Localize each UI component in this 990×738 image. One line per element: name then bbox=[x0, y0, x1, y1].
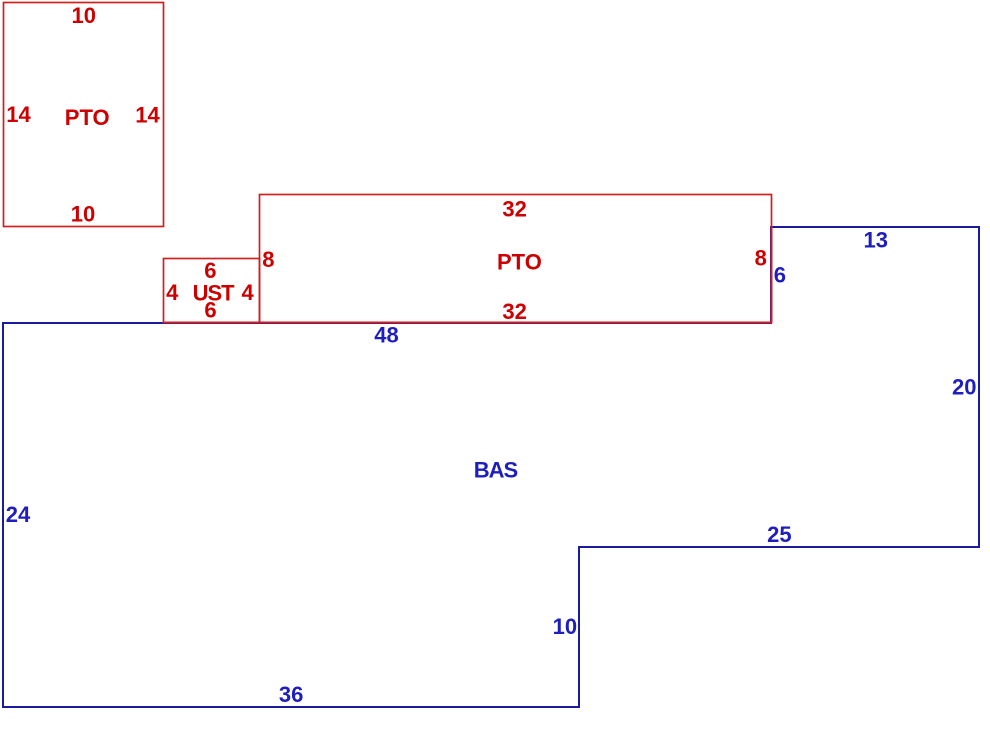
svg-text:10: 10 bbox=[71, 202, 95, 227]
svg-text:8: 8 bbox=[755, 245, 767, 270]
svg-text:PTO: PTO bbox=[65, 105, 110, 130]
svg-text:32: 32 bbox=[502, 197, 526, 222]
svg-text:32: 32 bbox=[502, 299, 526, 324]
svg-text:8: 8 bbox=[262, 247, 274, 272]
svg-text:BAS: BAS bbox=[474, 457, 518, 482]
svg-text:48: 48 bbox=[374, 323, 398, 348]
area PTO center (red rectangle) bbox=[260, 195, 772, 323]
svg-text:14: 14 bbox=[6, 102, 31, 127]
area UST (red rectangle) bbox=[164, 259, 260, 323]
svg-text:4: 4 bbox=[166, 280, 179, 305]
svg-text:20: 20 bbox=[952, 375, 976, 400]
area BAS outline (blue polygon) bbox=[3, 227, 979, 707]
svg-text:PTO: PTO bbox=[497, 250, 542, 275]
wire: red overlap of BAS edge along PTO right side bbox=[771, 227, 773, 323]
svg-text:10: 10 bbox=[553, 614, 577, 639]
svg-text:24: 24 bbox=[6, 502, 31, 527]
svg-text:36: 36 bbox=[279, 682, 303, 707]
svg-text:6: 6 bbox=[204, 258, 216, 283]
svg-text:4: 4 bbox=[241, 280, 254, 305]
svg-text:13: 13 bbox=[864, 227, 888, 252]
svg-text:14: 14 bbox=[135, 103, 160, 128]
svg-text:6: 6 bbox=[204, 297, 216, 322]
wire: red overlap of BAS top edge under UST/PTO bottoms bbox=[164, 322, 772, 324]
svg-text:6: 6 bbox=[774, 263, 786, 288]
svg-text:10: 10 bbox=[71, 3, 95, 28]
svg-text:25: 25 bbox=[767, 522, 791, 547]
area PTO top-left (red rectangle) bbox=[4, 3, 164, 227]
